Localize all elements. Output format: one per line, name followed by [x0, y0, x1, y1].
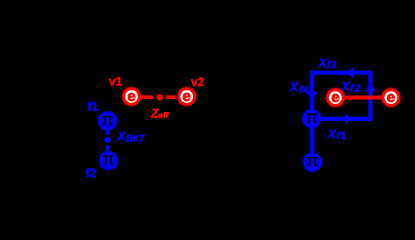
svg-text:v2: v2 [191, 75, 205, 89]
svg-text:v1: v1 [109, 75, 123, 89]
dot of dashed Zeff line [157, 94, 164, 101]
charge circle right [381, 88, 400, 107]
svg-text:f3: f3 [327, 60, 337, 71]
svg-text:X: X [117, 130, 127, 144]
dot of dashed Xeff line [105, 137, 111, 143]
label Xf2 [341, 79, 362, 94]
fluxon circle loop [302, 107, 321, 128]
svg-text:e: e [331, 89, 339, 106]
fluxon circle f2 [99, 149, 118, 170]
wire dashed Zeff segment 1 [140, 95, 153, 99]
svg-text:π: π [307, 150, 319, 170]
fluxon circle f1 [98, 109, 117, 130]
svg-text:π: π [102, 109, 114, 129]
arrow up on right wire [365, 82, 376, 91]
charge circle v1 [122, 87, 141, 106]
label XBKT [117, 130, 147, 144]
svg-text:f2: f2 [86, 166, 97, 180]
wire dashed Xeff segment 1 [106, 130, 110, 135]
label Xf3 [318, 56, 337, 71]
wire dashed Zeff segment 2 [166, 95, 176, 99]
svg-text:e: e [127, 88, 135, 105]
arrow right on bottom wire [345, 113, 353, 124]
wire f1b to f2b [310, 128, 314, 153]
label Xf1 [327, 127, 347, 142]
wire red solid between charges [345, 96, 382, 100]
label Xf4 [289, 80, 309, 96]
svg-text:BKT: BKT [126, 133, 146, 143]
arrow down on left wire [306, 92, 317, 101]
svg-text:f4: f4 [300, 85, 310, 96]
svg-text:e: e [183, 88, 191, 105]
svg-text:eff: eff [158, 110, 169, 120]
svg-text:π: π [306, 107, 318, 127]
svg-text:π: π [102, 149, 114, 169]
label Zeff [150, 107, 170, 121]
charge circle v2 [177, 87, 196, 106]
svg-text:f1: f1 [88, 99, 99, 113]
svg-text:f1: f1 [337, 131, 347, 142]
arrow left on top wire [345, 67, 354, 78]
fluxon circle below loop [303, 150, 322, 171]
wire dashed Xeff segment 2 [106, 145, 110, 151]
svg-text:X: X [327, 127, 337, 141]
charge circle inside loop [326, 88, 345, 107]
svg-text:X: X [289, 80, 299, 94]
svg-text:f2: f2 [350, 82, 361, 94]
svg-text:e: e [387, 89, 395, 106]
wire blue loop [312, 73, 371, 119]
